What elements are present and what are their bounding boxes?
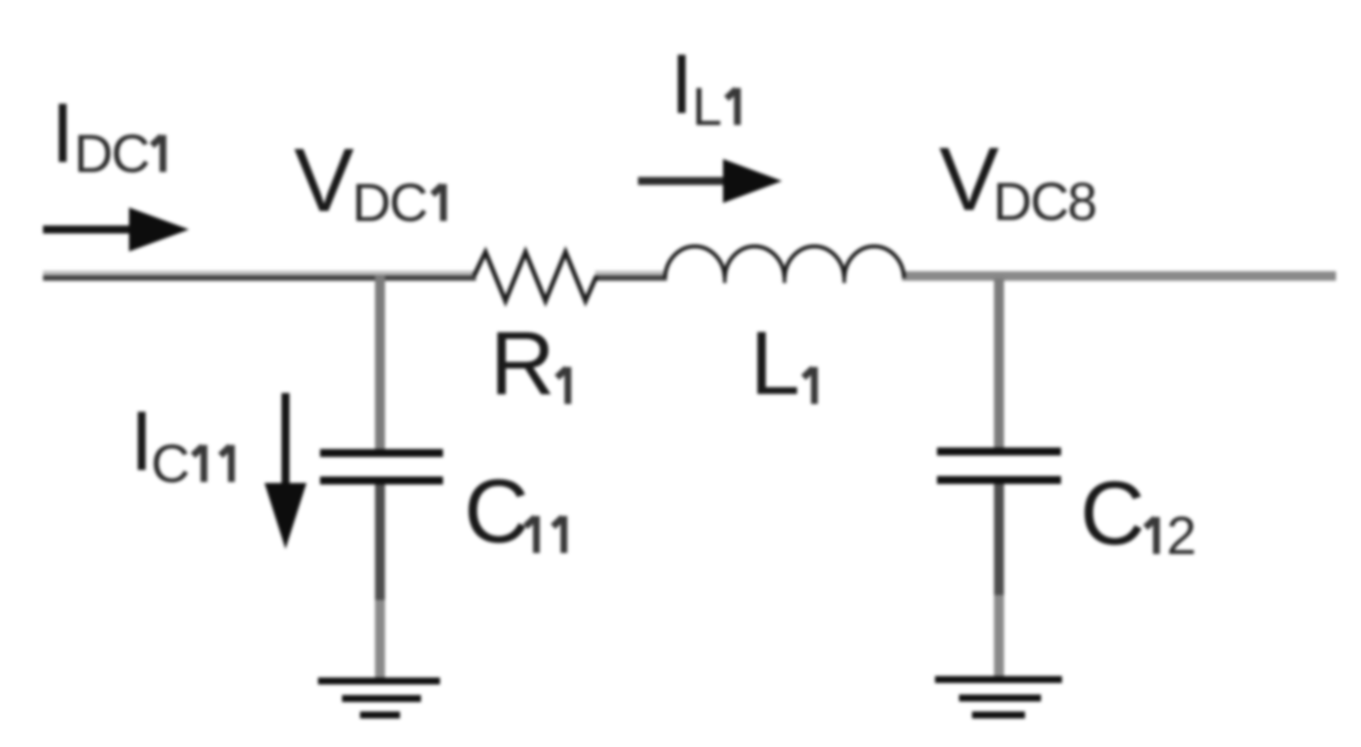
ground left bbox=[318, 681, 440, 715]
svg-text:DC: DC bbox=[352, 173, 426, 233]
svg-text:C: C bbox=[464, 462, 529, 562]
svg-text:I: I bbox=[51, 86, 74, 180]
wire main horizontal right segment bbox=[902, 271, 1336, 281]
wire capacitor C11 lower gray segment bbox=[375, 600, 385, 681]
capacitor C12 bottom plate bbox=[937, 476, 1061, 484]
capacitor C12 top plate bbox=[937, 448, 1061, 456]
wire capacitor C12 lower gray segment bbox=[994, 595, 1004, 678]
svg-text:DC: DC bbox=[74, 124, 148, 184]
wire main horizontal left segment bbox=[43, 271, 476, 276]
svg-text:2: 2 bbox=[1167, 506, 1197, 566]
capacitor C11 bottom plate bbox=[320, 477, 443, 485]
inductor L1 bbox=[665, 246, 904, 278]
inductor L1 cusp ticks bbox=[723, 276, 727, 283]
resistor R1 bbox=[474, 252, 597, 301]
svg-text:R: R bbox=[490, 314, 555, 414]
capacitor C11 top plate bbox=[320, 449, 443, 457]
arrow current I_L1 bbox=[638, 177, 727, 185]
svg-text:L: L bbox=[692, 77, 722, 137]
node A vertical wire V_DC1 to capacitor C11 bbox=[375, 276, 385, 451]
svg-text:DC8: DC8 bbox=[993, 172, 1096, 232]
arrow current I_DC1 bbox=[43, 226, 133, 234]
wire between resistor and inductor bbox=[595, 271, 667, 276]
arrow current I_C11 bbox=[282, 393, 290, 487]
svg-text:C: C bbox=[1080, 464, 1145, 564]
svg-text:I: I bbox=[670, 37, 693, 131]
svg-text:L: L bbox=[750, 314, 800, 414]
wire capacitor C12 bottom to ground bbox=[994, 483, 1004, 595]
node B vertical wire V_DC8 to capacitor C12 bbox=[994, 278, 1004, 450]
wire capacitor C11 bottom to ground bbox=[375, 483, 385, 600]
svg-text:V: V bbox=[294, 131, 354, 231]
svg-text:V: V bbox=[939, 130, 999, 230]
svg-text:C: C bbox=[151, 434, 190, 494]
svg-text:I: I bbox=[130, 394, 153, 488]
ground right bbox=[935, 680, 1062, 716]
